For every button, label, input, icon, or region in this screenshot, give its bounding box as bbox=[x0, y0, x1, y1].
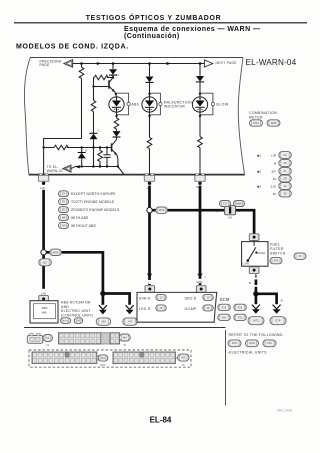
connector label oval row2-b bbox=[175, 357, 177, 359]
connector ref M73 bbox=[248, 317, 264, 325]
diode D6 bbox=[196, 76, 204, 82]
svg-text:WARN-02: WARN-02 bbox=[47, 169, 63, 173]
svg-text:XX: XX bbox=[62, 193, 66, 196]
connector ref list bbox=[228, 340, 241, 347]
svg-text:T,D: T,D bbox=[223, 202, 227, 206]
connector: ABS unit pin bbox=[39, 296, 49, 303]
node dots on bias line bbox=[42, 146, 44, 148]
svg-text:TD27Ti ENGINE MODELS: TD27Ti ENGINE MODELS bbox=[71, 200, 115, 204]
svg-text:21S: 21S bbox=[270, 184, 276, 188]
svg-text:LOW: LOW bbox=[242, 262, 249, 266]
svg-text:FUEL: FUEL bbox=[270, 243, 280, 247]
connector ref E74 bbox=[270, 317, 286, 325]
connector: ECM pin left bbox=[145, 286, 155, 293]
svg-text:W3: W3 bbox=[181, 356, 185, 360]
svg-text:(Continuación): (Continuación) bbox=[124, 33, 180, 40]
wire: bias line y147 bbox=[44, 147, 55, 149]
ECM box bbox=[137, 292, 217, 322]
node: LED ABS lower bbox=[115, 115, 117, 117]
fuel filter switch box bbox=[242, 242, 268, 267]
svg-text:L/R: L/R bbox=[40, 186, 45, 190]
svg-text:B/W: B/W bbox=[100, 364, 105, 367]
svg-text:◆3: ◆3 bbox=[257, 184, 261, 188]
dashed harness box bbox=[29, 350, 191, 367]
resistor R7 bbox=[149, 112, 151, 137]
svg-text:INDICATOR: INDICATOR bbox=[164, 105, 186, 109]
node: emitter to LED bbox=[115, 93, 117, 95]
svg-text:Y56: Y56 bbox=[101, 320, 106, 324]
svg-text:C4: C4 bbox=[46, 343, 50, 347]
inline connector B1 bbox=[225, 205, 236, 214]
connector label oval row1-b bbox=[119, 334, 130, 341]
transistor Q1 bbox=[108, 80, 110, 88]
preceding page arrow bbox=[64, 60, 73, 67]
svg-text:M33: M33 bbox=[53, 250, 59, 254]
resistor R3 bbox=[91, 100, 96, 111]
node: base node dot bbox=[92, 85, 94, 87]
svg-text:Y47: Y47 bbox=[128, 320, 133, 324]
divider vertical line bbox=[225, 330, 227, 406]
node: junction below switch bbox=[253, 291, 258, 296]
svg-text:SWITCH: SWITCH bbox=[270, 252, 286, 256]
svg-text:E125: E125 bbox=[63, 320, 69, 322]
resistor R6 bbox=[99, 148, 101, 151]
resistor R1 bbox=[79, 67, 84, 78]
svg-text:M4: M4 bbox=[101, 357, 105, 360]
connector E43 bbox=[270, 257, 282, 263]
node: junction top wire x82 bbox=[80, 62, 83, 65]
svg-text:ZD: ZD bbox=[62, 209, 66, 212]
connector F23 bbox=[234, 304, 247, 310]
svg-text:F31: F31 bbox=[238, 316, 243, 319]
diode D1 bbox=[112, 64, 114, 70]
svg-text:-ELECTRICAL UNITS: -ELECTRICAL UNITS bbox=[228, 350, 268, 354]
resistor R5 bbox=[54, 145, 68, 150]
svg-text:F23: F23 bbox=[267, 341, 272, 345]
svg-text:ABS: ABS bbox=[131, 103, 139, 107]
svg-text:EL-84: EL-84 bbox=[150, 416, 172, 425]
svg-text:EVA-D: EVA-D bbox=[139, 297, 151, 301]
svg-text:24: 24 bbox=[283, 153, 287, 157]
separator line bbox=[24, 327, 226, 329]
svg-text:TD: TD bbox=[62, 201, 66, 204]
wire: heavy branch to fuel filter switch bbox=[152, 209, 224, 212]
page ref arrow left bbox=[99, 305, 107, 309]
svg-text:G/LMP: G/LMP bbox=[185, 307, 197, 311]
diode D4 (*2) bbox=[81, 148, 83, 153]
connector: meter pin 1 bbox=[38, 175, 48, 181]
legend connector row 5 bbox=[279, 183, 292, 190]
svg-text:XX: XX bbox=[298, 255, 302, 258]
connector M66 above B1 bbox=[234, 201, 245, 207]
switch lever bbox=[247, 259, 250, 262]
svg-text:E43: E43 bbox=[274, 260, 279, 263]
connector: switch top bbox=[249, 234, 259, 241]
svg-text:25: 25 bbox=[283, 161, 287, 165]
connector: switch bottom bbox=[249, 267, 259, 274]
wire: B heavy dashed below switch bbox=[255, 275, 257, 278]
wire: base node bbox=[93, 78, 96, 87]
svg-text:16: 16 bbox=[273, 177, 277, 181]
wire: GLOW branch bbox=[199, 64, 201, 76]
svg-text:EXCEPT NORTH EUROPE: EXCEPT NORTH EUROPE bbox=[71, 192, 116, 196]
current direction arrow 1 bbox=[97, 62, 101, 65]
diode D2 (zener, *1) bbox=[90, 134, 98, 140]
resistor R4 bbox=[116, 112, 118, 118]
svg-text:25: 25 bbox=[283, 192, 287, 196]
legend connector row 3 bbox=[279, 168, 292, 175]
wire: heavy to switch bbox=[236, 210, 255, 233]
svg-text:B: B bbox=[281, 299, 283, 303]
next page arrow bbox=[204, 60, 212, 67]
svg-text:(CONTROL UNIT): (CONTROL UNIT) bbox=[61, 314, 93, 318]
svg-text:EL-WARN-04: EL-WARN-04 bbox=[246, 58, 297, 67]
connector XX bbox=[294, 253, 306, 259]
svg-text:L/W: L/W bbox=[41, 292, 47, 296]
svg-text:B: B bbox=[249, 281, 251, 285]
connector face grid D (row2 right) bbox=[113, 352, 175, 364]
connector M24 bbox=[250, 120, 263, 126]
svg-text:E125: E125 bbox=[249, 342, 255, 345]
wire: G/B heavy from meter pin3 to ECM bbox=[199, 186, 202, 285]
inline connector on ABS wire bbox=[39, 259, 52, 266]
header rule bbox=[14, 22, 307, 24]
transistor Q2 bbox=[111, 143, 113, 151]
wire: top supply bus bbox=[73, 63, 205, 65]
svg-text:W: W bbox=[182, 363, 185, 367]
svg-text:FILTER: FILTER bbox=[270, 247, 284, 251]
svg-text:E74: E74 bbox=[276, 319, 281, 323]
wire: internal ground bus bbox=[75, 166, 118, 168]
connector label at S2 bbox=[156, 207, 168, 213]
svg-text:21: 21 bbox=[283, 169, 287, 173]
svg-text:XA: XA bbox=[62, 224, 66, 227]
svg-text:L/R: L/R bbox=[271, 153, 277, 157]
svg-text:MEL102D: MEL102D bbox=[278, 409, 293, 413]
connector: meter pin 3 bbox=[195, 175, 205, 181]
svg-text:HIGH: HIGH bbox=[258, 251, 265, 255]
svg-text:W: W bbox=[123, 343, 126, 347]
svg-text:M31: M31 bbox=[232, 341, 238, 345]
diode D3 bbox=[113, 131, 121, 137]
svg-text:W/L: W/L bbox=[42, 310, 48, 314]
connector label at S1 bbox=[50, 249, 62, 255]
svg-text:M24: M24 bbox=[253, 121, 259, 125]
legend connector row 4 bbox=[279, 175, 292, 182]
page ref arrow switch left bbox=[252, 305, 260, 309]
svg-text:GRZ-D: GRZ-D bbox=[185, 297, 197, 301]
svg-text:M4: M4 bbox=[123, 335, 127, 339]
svg-text:◆1: ◆1 bbox=[257, 153, 261, 157]
connector ref E47 bbox=[123, 318, 138, 325]
connector label oval row2-a bbox=[97, 355, 99, 357]
svg-text:PAGE: PAGE bbox=[40, 63, 51, 67]
legend code AB bbox=[59, 215, 69, 221]
LED lamp ABS bbox=[115, 94, 118, 97]
current direction arrow 2 bbox=[167, 62, 172, 65]
splice S2 bbox=[147, 208, 152, 213]
combination meter bottom border bbox=[29, 174, 245, 176]
wire: L heavy from meter pin2 to ECM bbox=[148, 186, 151, 285]
svg-text:METER: METER bbox=[249, 116, 263, 120]
svg-text:B: B bbox=[274, 161, 276, 165]
svg-text:WITHOUT ABS: WITHOUT ABS bbox=[71, 224, 97, 228]
wire: heavy splice branch right bbox=[46, 252, 103, 292]
legend code ZD bbox=[59, 207, 69, 213]
svg-text:AB: AB bbox=[62, 216, 66, 219]
combination meter torn right edge bbox=[238, 58, 244, 175]
connector face C (small) bbox=[27, 336, 42, 344]
legend code XA bbox=[59, 223, 69, 229]
connector F13 bbox=[218, 304, 231, 310]
svg-text:16: 16 bbox=[273, 192, 277, 196]
svg-text:M33: M33 bbox=[159, 208, 165, 212]
svg-text:M66: M66 bbox=[236, 202, 242, 206]
svg-text:◆2: ◆2 bbox=[257, 169, 261, 173]
svg-text:W6: W6 bbox=[228, 216, 232, 220]
direction arrow on MIL wire bbox=[147, 274, 152, 279]
resistor R8 bbox=[199, 112, 201, 137]
legend code TD bbox=[59, 199, 69, 205]
LED lamp MALFUNCTION INDICATOR bbox=[142, 97, 157, 112]
node: junction top wire x200 bbox=[199, 62, 202, 65]
svg-text:ECM: ECM bbox=[220, 297, 230, 302]
svg-text:M4: M4 bbox=[222, 316, 226, 319]
combination meter box top border bbox=[30, 57, 243, 59]
connector M25 bbox=[267, 120, 280, 126]
LED lamp GLOW bbox=[192, 97, 207, 112]
svg-text:Esquema de conexiones — WARN —: Esquema de conexiones — WARN — bbox=[124, 26, 260, 33]
combination meter torn left edge bbox=[24, 58, 30, 175]
legend connector row 1 bbox=[279, 152, 292, 159]
connector M4 bbox=[218, 314, 231, 320]
svg-text:COMBINATION: COMBINATION bbox=[249, 111, 277, 115]
svg-text:G/W: G/W bbox=[196, 280, 202, 284]
legend code XX bbox=[59, 191, 69, 197]
page ref arrow switch right bbox=[273, 305, 281, 309]
to EL-WARN-02 arrow bbox=[63, 165, 71, 172]
wire: bus tie to meter case bbox=[118, 167, 124, 175]
svg-text:TESTIGOS ÓPTICOS Y ZUMBADOR: TESTIGOS ÓPTICOS Y ZUMBADOR bbox=[86, 13, 222, 22]
wire: x82 down to routing corner bbox=[81, 64, 83, 68]
svg-text:32*: 32* bbox=[271, 169, 276, 173]
svg-text:F23: F23 bbox=[238, 306, 243, 309]
legend connector row 6 bbox=[279, 190, 292, 197]
node: collector node bbox=[112, 76, 114, 78]
svg-text:22: 22 bbox=[283, 184, 287, 188]
svg-text:MODELOS DE COND. IZQDA.: MODELOS DE COND. IZQDA. bbox=[16, 44, 129, 51]
connector face W (row1 grid) bbox=[59, 333, 101, 344]
connector A6 bbox=[74, 318, 83, 324]
node: junction bbox=[100, 291, 105, 296]
wire: L/R heavy from meter pin1 bbox=[42, 190, 45, 250]
resistor R2 (base of Q1) bbox=[94, 75, 108, 80]
svg-text:ABS: ABS bbox=[41, 306, 47, 310]
svg-text:F13: F13 bbox=[222, 306, 227, 309]
svg-text:B2: B2 bbox=[43, 260, 47, 264]
svg-text:LED-R: LED-R bbox=[139, 307, 151, 311]
svg-text:WITH ABS: WITH ABS bbox=[71, 216, 89, 220]
wire: heavy below splice bbox=[42, 255, 45, 289]
wire: left divider branch down bbox=[93, 87, 95, 101]
connector: meter pin 2 bbox=[144, 175, 154, 181]
svg-text:REFER TO THE FOLLOWING.: REFER TO THE FOLLOWING. bbox=[229, 333, 284, 337]
ABS actuator unit box bbox=[30, 301, 58, 323]
connector E125 bbox=[61, 318, 71, 324]
node: junction top wire x113 bbox=[112, 62, 115, 65]
wire: routing to left and down to meter pin 1 bbox=[44, 139, 82, 175]
svg-text:GLOW: GLOW bbox=[216, 103, 229, 107]
page ref arrow right bbox=[126, 305, 134, 309]
svg-text:29: 29 bbox=[283, 177, 287, 181]
capacitor C1 bbox=[106, 148, 108, 155]
connector label oval row1-a bbox=[43, 335, 53, 342]
diode D5 bbox=[146, 77, 154, 83]
connector TD above B1 bbox=[220, 201, 231, 207]
connector ref E56 bbox=[96, 318, 111, 325]
connector face grid C (row2 left) bbox=[32, 352, 97, 364]
direction arrow on GLOW wire bbox=[198, 274, 203, 279]
svg-text:ZD30DDTi ENGINE MODELS: ZD30DDTi ENGINE MODELS bbox=[71, 208, 120, 212]
connector F31 bbox=[234, 314, 247, 320]
svg-text:M25: M25 bbox=[271, 121, 277, 125]
connector: ECM pin right bbox=[196, 286, 206, 293]
svg-text:M73: M73 bbox=[253, 319, 259, 323]
node: junction top wire x150 bbox=[148, 62, 151, 65]
svg-text:NEXT PAGE: NEXT PAGE bbox=[216, 61, 238, 65]
wire: MIL branch bbox=[149, 64, 151, 77]
splice S1 bbox=[41, 250, 46, 255]
legend connector row 2 bbox=[279, 160, 292, 167]
